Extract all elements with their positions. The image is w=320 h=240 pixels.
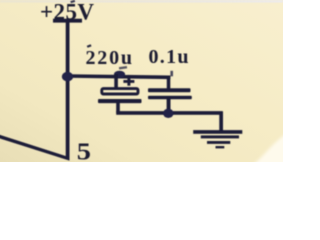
svg-text:220u: 220u xyxy=(86,47,133,69)
junction node dot A (main rail) xyxy=(62,72,73,82)
ground symbol bar 1 xyxy=(193,130,242,134)
C1 polarity plus sign xyxy=(123,80,134,83)
stray tick above C2 corner xyxy=(170,71,173,77)
capacitor C1 220u top lead xyxy=(114,74,118,88)
capacitor C2 bottom lead xyxy=(167,99,171,112)
junction node dot B (C1 top) xyxy=(114,71,125,78)
capacitor C2 0.1u top lead xyxy=(167,76,171,90)
capacitor C2 bottom plate xyxy=(148,96,192,100)
svg-text:5: 5 xyxy=(77,139,91,162)
capacitor C2 top plate xyxy=(148,88,191,92)
accent tick above 5 of +25V xyxy=(70,0,75,3)
wire: top horizontal from junction to C2 lead xyxy=(67,74,170,79)
capacitor C1 bottom lead xyxy=(116,102,120,113)
background page xyxy=(0,0,283,162)
capacitor C1 negative plate xyxy=(98,99,142,103)
junction node dot C (C2 bottom) xyxy=(163,109,174,118)
svg-text:0.1u: 0.1u xyxy=(149,46,189,68)
accent tick above 2 of 220u xyxy=(87,44,92,48)
ground symbol bar 2 xyxy=(201,135,239,138)
white triangle overlay bottom-right xyxy=(251,133,292,167)
wire: down-right corner to ground xyxy=(219,112,223,133)
wire: diagonal into node 5 xyxy=(0,134,70,160)
stray mark above C1 junction xyxy=(119,66,127,69)
ground symbol bar 3 xyxy=(207,141,230,144)
top edge light band xyxy=(0,0,283,3)
wire: bottom horizontal to ground xyxy=(116,111,223,115)
wire: main vertical from +25V to node 5 xyxy=(66,21,70,160)
power rail bar (+25V symbol) xyxy=(53,19,82,23)
ground symbol bar 4 xyxy=(216,146,225,148)
capacitor C1 positive plate (hollow rectangle) xyxy=(102,89,138,94)
